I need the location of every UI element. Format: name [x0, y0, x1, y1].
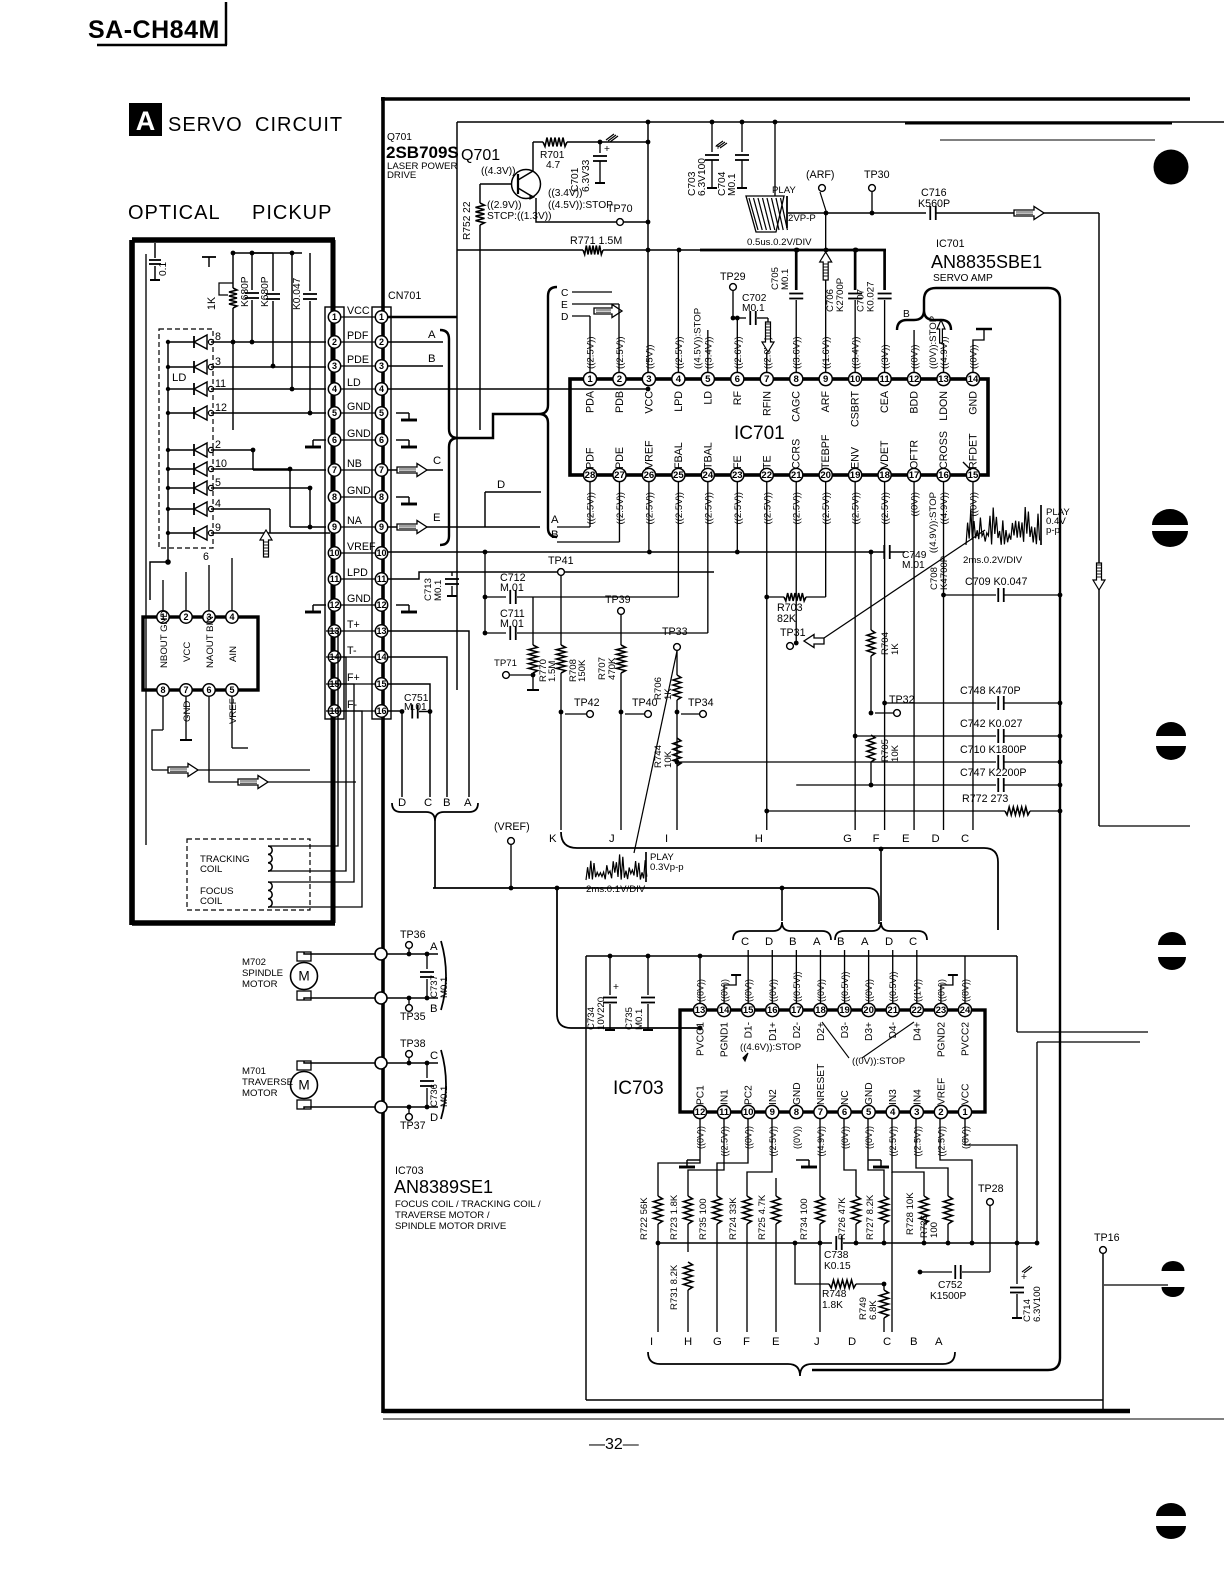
svg-text:D: D	[885, 936, 893, 948]
svg-text:2SB709S: 2SB709S	[386, 143, 459, 162]
svg-text:6: 6	[842, 1107, 847, 1118]
svg-text:10: 10	[215, 458, 227, 470]
svg-text:VREF: VREF	[228, 698, 239, 724]
svg-text:6: 6	[206, 685, 211, 695]
svg-text:((2.5V)): ((2.5V))	[768, 1126, 778, 1157]
svg-text:LPD: LPD	[347, 567, 368, 579]
svg-text:H: H	[684, 1336, 692, 1348]
svg-text:I: I	[665, 833, 668, 845]
svg-text:IN3: IN3	[888, 1089, 899, 1105]
svg-text:C: C	[430, 1050, 438, 1062]
svg-text:GND: GND	[347, 485, 371, 497]
svg-text:C: C	[741, 936, 749, 948]
svg-text:12: 12	[695, 1107, 706, 1118]
svg-text:TE: TE	[761, 455, 773, 469]
svg-text:C752: C752	[938, 1280, 963, 1291]
svg-text:12: 12	[376, 600, 386, 610]
svg-text:FE: FE	[732, 455, 744, 469]
svg-text:NB: NB	[347, 458, 362, 470]
svg-text:21: 21	[791, 470, 802, 481]
svg-text:CIRCUIT: CIRCUIT	[255, 114, 343, 136]
svg-text:A: A	[464, 797, 472, 809]
svg-text:AN8389SE1: AN8389SE1	[394, 1177, 493, 1197]
svg-text:11: 11	[880, 374, 891, 385]
svg-text:7: 7	[183, 685, 188, 695]
svg-text:K4700P: K4700P	[939, 556, 950, 590]
svg-text:SERVO: SERVO	[168, 114, 243, 136]
svg-text:11: 11	[377, 574, 387, 584]
svg-text:((2.5V)): ((2.5V))	[615, 492, 626, 525]
svg-text:((4.5V)):STOP: ((4.5V)):STOP	[692, 308, 703, 369]
svg-text:5: 5	[332, 408, 337, 418]
svg-text:LDON: LDON	[938, 391, 950, 421]
svg-text:RF: RF	[732, 391, 744, 406]
svg-text:A: A	[430, 941, 438, 953]
svg-text:((2.5V)): ((2.5V))	[888, 1126, 898, 1157]
svg-text:R731 8.2K: R731 8.2K	[669, 1264, 680, 1310]
svg-text:27: 27	[614, 470, 625, 481]
svg-text:((2.5V)): ((2.5V))	[762, 492, 773, 525]
svg-text:M0.1: M0.1	[780, 269, 791, 290]
svg-text:24: 24	[703, 470, 714, 481]
svg-text:VREF: VREF	[347, 541, 376, 553]
svg-text:1K: 1K	[890, 643, 901, 655]
svg-text:OFTR: OFTR	[909, 440, 921, 469]
svg-text:7: 7	[379, 465, 384, 475]
svg-text:F+: F+	[347, 672, 360, 684]
svg-text:16: 16	[938, 470, 949, 481]
svg-text:11: 11	[719, 1107, 730, 1118]
svg-text:15: 15	[376, 679, 386, 689]
svg-text:IC703: IC703	[613, 1078, 664, 1099]
svg-text:((3.4V)): ((3.4V))	[851, 336, 862, 369]
svg-text:TP34: TP34	[688, 697, 714, 709]
svg-text:GND: GND	[967, 391, 979, 415]
svg-text:22: 22	[911, 1005, 922, 1016]
svg-text:D: D	[398, 797, 406, 809]
svg-text:B: B	[551, 529, 559, 541]
svg-text:7: 7	[818, 1107, 823, 1118]
svg-text:MOTOR: MOTOR	[242, 1088, 278, 1099]
svg-text:15: 15	[743, 1005, 754, 1016]
svg-text:11: 11	[330, 574, 340, 584]
svg-text:IC703: IC703	[395, 1165, 424, 1177]
svg-text:10V220: 10V220	[596, 997, 607, 1030]
svg-text:3: 3	[215, 356, 221, 368]
svg-text:23: 23	[732, 470, 743, 481]
svg-text:((2.5V)): ((2.5V))	[703, 492, 714, 525]
svg-text:8: 8	[794, 1107, 800, 1118]
svg-text:6: 6	[379, 435, 384, 445]
svg-text:LD: LD	[347, 377, 361, 389]
svg-text:SPINDLE MOTOR DRIVE: SPINDLE MOTOR DRIVE	[395, 1221, 506, 1232]
svg-text:14: 14	[968, 374, 979, 385]
svg-text:VCC: VCC	[643, 391, 655, 414]
svg-text:Q701: Q701	[461, 147, 500, 164]
svg-text:F: F	[873, 833, 880, 845]
svg-text:D: D	[430, 1112, 438, 1124]
svg-text:((4.9V)): ((4.9V))	[816, 1126, 826, 1157]
svg-text:VCC: VCC	[182, 642, 193, 662]
svg-text:GND: GND	[347, 401, 371, 413]
svg-text:((4.6V)):STOP: ((4.6V)):STOP	[740, 1042, 801, 1053]
svg-text:((0V)):STOP: ((0V)):STOP	[852, 1056, 905, 1067]
svg-text:((2.5V)): ((2.5V))	[880, 492, 891, 525]
svg-text:R771 1.5M: R771 1.5M	[570, 235, 622, 247]
svg-text:8: 8	[215, 331, 221, 343]
svg-text:TP29: TP29	[720, 271, 746, 283]
svg-text:IN4: IN4	[912, 1089, 923, 1105]
svg-text:PDB: PDB	[614, 391, 626, 413]
svg-text:3: 3	[332, 361, 337, 371]
svg-text:C: C	[909, 936, 917, 948]
svg-text:E: E	[433, 512, 441, 524]
svg-text:T+: T+	[347, 619, 360, 631]
svg-text:1.8K: 1.8K	[822, 1300, 843, 1311]
svg-text:C709 K0.047: C709 K0.047	[965, 576, 1027, 588]
svg-text:TP38: TP38	[400, 1038, 426, 1050]
svg-text:((0V)): ((0V))	[792, 1126, 802, 1149]
svg-text:6: 6	[203, 551, 209, 563]
svg-text:R725 4.7K: R725 4.7K	[757, 1194, 768, 1240]
svg-text:0.1: 0.1	[158, 262, 169, 276]
svg-text:PC2: PC2	[744, 1085, 755, 1105]
svg-text:2: 2	[183, 612, 188, 622]
svg-text:F-: F-	[347, 699, 358, 711]
svg-text:18: 18	[815, 1005, 826, 1016]
svg-text:R735 100: R735 100	[698, 1198, 709, 1240]
svg-text:TP32: TP32	[889, 694, 915, 706]
svg-text:2: 2	[215, 439, 221, 451]
svg-text:K0.15: K0.15	[824, 1261, 851, 1272]
svg-text:M.01: M.01	[500, 618, 524, 630]
svg-text:D1+: D1+	[768, 1022, 779, 1041]
svg-text:VCC: VCC	[960, 1083, 971, 1105]
svg-text:LD: LD	[702, 391, 714, 405]
svg-text:25: 25	[673, 470, 684, 481]
svg-text:SPINDLE: SPINDLE	[242, 968, 283, 979]
svg-text:1: 1	[962, 1107, 968, 1118]
svg-text:((2.5V)): ((2.5V))	[936, 1126, 946, 1157]
svg-text:((2.5V)): ((2.5V))	[644, 492, 655, 525]
svg-text:2: 2	[617, 374, 622, 385]
svg-text:((0V)): ((0V))	[840, 1126, 850, 1149]
svg-text:4: 4	[332, 384, 337, 394]
svg-text:ARF: ARF	[820, 391, 832, 413]
svg-text:((3.6V)): ((3.6V))	[792, 336, 803, 369]
svg-text:CAGC: CAGC	[791, 391, 803, 422]
svg-text:13: 13	[695, 1005, 706, 1016]
svg-text:M: M	[298, 1078, 309, 1093]
svg-text:E: E	[561, 300, 568, 311]
svg-text:C: C	[561, 288, 568, 299]
svg-text:PDE: PDE	[347, 354, 369, 366]
svg-text:D: D	[765, 936, 773, 948]
svg-text:((0V)): ((0V))	[910, 492, 921, 517]
svg-text:1K: 1K	[206, 296, 218, 310]
svg-text:4: 4	[229, 612, 234, 622]
svg-text:C: C	[433, 455, 441, 467]
svg-text:K2700P: K2700P	[835, 278, 846, 312]
svg-text:VCC: VCC	[347, 305, 370, 317]
svg-text:TP30: TP30	[864, 169, 890, 181]
svg-text:AN8835SBE1: AN8835SBE1	[931, 252, 1042, 272]
svg-text:5: 5	[215, 477, 221, 489]
svg-text:K560P: K560P	[918, 198, 950, 210]
svg-text:13: 13	[938, 374, 949, 385]
svg-text:IC701: IC701	[734, 423, 785, 444]
svg-text:TP36: TP36	[400, 929, 426, 941]
svg-text:16: 16	[767, 1005, 778, 1016]
svg-text:C742 K0.027: C742 K0.027	[960, 718, 1022, 730]
svg-text:K680P: K680P	[240, 276, 251, 307]
svg-text:((4.3V)): ((4.3V))	[481, 166, 516, 177]
svg-text:TP28: TP28	[978, 1183, 1004, 1195]
svg-text:10: 10	[850, 374, 861, 385]
svg-text:24: 24	[960, 1005, 971, 1016]
svg-text:R726 47K: R726 47K	[837, 1197, 848, 1240]
svg-text:CROSS: CROSS	[938, 431, 950, 469]
svg-text:MOTOR: MOTOR	[242, 979, 278, 990]
svg-text:FBAL: FBAL	[673, 442, 685, 469]
svg-text:R728 10K: R728 10K	[905, 1192, 916, 1235]
svg-text:K1500P: K1500P	[930, 1291, 966, 1302]
svg-text:J: J	[814, 1336, 820, 1348]
svg-text:K0.027: K0.027	[866, 282, 877, 312]
svg-text:Q701: Q701	[387, 132, 412, 143]
svg-text:SA-CH84M: SA-CH84M	[88, 16, 220, 44]
svg-text:23: 23	[936, 1005, 947, 1016]
svg-text:OPTICAL: OPTICAL	[128, 202, 221, 224]
svg-text:PLAY: PLAY	[772, 185, 796, 196]
svg-text:((5V)): ((5V))	[644, 344, 655, 369]
svg-text:D2+: D2+	[816, 1022, 827, 1041]
svg-text:((0V)): ((0V))	[910, 344, 921, 369]
svg-text:TP42: TP42	[574, 697, 600, 709]
svg-text:K0.047: K0.047	[292, 277, 303, 310]
svg-text:R772 273: R772 273	[962, 793, 1008, 805]
svg-text:TP33: TP33	[662, 626, 688, 638]
svg-text:GND: GND	[347, 593, 371, 605]
svg-text:14: 14	[376, 652, 386, 662]
svg-text:M0.1: M0.1	[742, 303, 765, 314]
svg-text:D3-: D3-	[840, 1022, 851, 1038]
svg-text:5: 5	[705, 374, 711, 385]
svg-text:R727 8.2K: R727 8.2K	[865, 1194, 876, 1240]
svg-text:VDET: VDET	[879, 440, 891, 469]
svg-text:1: 1	[332, 312, 337, 322]
svg-text:STCP:((1.3V)): STCP:((1.3V))	[487, 211, 552, 222]
svg-text:CCRS: CCRS	[791, 439, 803, 469]
svg-text:A: A	[861, 936, 869, 948]
svg-text:PDE: PDE	[614, 447, 626, 469]
svg-text:18: 18	[879, 470, 890, 481]
svg-text:R723 1.8K: R723 1.8K	[669, 1194, 680, 1240]
svg-text:H: H	[755, 833, 763, 845]
svg-text:TP41: TP41	[548, 555, 574, 567]
svg-text:TP31: TP31	[780, 627, 806, 639]
svg-text:C: C	[424, 797, 432, 809]
svg-text:GND: GND	[182, 701, 193, 722]
svg-text:B: B	[903, 309, 910, 320]
svg-text:C710 K1800P: C710 K1800P	[960, 744, 1027, 756]
svg-text:12: 12	[329, 600, 339, 610]
svg-text:COIL: COIL	[200, 896, 223, 907]
svg-text:R722 56K: R722 56K	[639, 1197, 650, 1240]
svg-text:R752 22: R752 22	[462, 201, 473, 240]
svg-text:9: 9	[770, 1107, 775, 1118]
svg-text:19: 19	[850, 470, 861, 481]
svg-text:FOCUS COIL / TRACKING COIL /: FOCUS COIL / TRACKING COIL /	[395, 1199, 541, 1210]
svg-text:0.5us.0.2V/DIV: 0.5us.0.2V/DIV	[747, 237, 812, 248]
svg-text:((2.5V)): ((2.5V))	[586, 492, 597, 525]
svg-text:((2.5V)): ((2.5V))	[733, 492, 744, 525]
svg-text:10: 10	[376, 548, 386, 558]
svg-text:A: A	[136, 106, 156, 136]
svg-text:10K: 10K	[663, 750, 674, 768]
svg-text:+: +	[604, 144, 610, 155]
svg-text:((1.6V)): ((1.6V))	[821, 336, 832, 369]
svg-text:14: 14	[719, 1005, 730, 1016]
svg-text:26: 26	[644, 470, 655, 481]
svg-text:((2.5V)): ((2.5V))	[851, 492, 862, 525]
svg-text:RFIN: RFIN	[761, 391, 773, 416]
svg-text:((2.5V)): ((2.5V))	[821, 492, 832, 525]
svg-text:PVCC2: PVCC2	[960, 1022, 971, 1056]
svg-text:8: 8	[332, 492, 337, 502]
svg-text:150K: 150K	[577, 659, 588, 682]
svg-text:J: J	[609, 833, 615, 845]
svg-text:4: 4	[379, 384, 384, 394]
svg-text:2ms.0.2V/DIV: 2ms.0.2V/DIV	[963, 555, 1023, 566]
svg-text:7: 7	[332, 465, 337, 475]
svg-text:((0V)):STOP: ((0V)):STOP	[928, 316, 939, 369]
svg-text:+: +	[613, 982, 619, 993]
svg-text:M702: M702	[242, 957, 266, 968]
svg-text:9: 9	[379, 522, 384, 532]
svg-text:5: 5	[866, 1107, 872, 1118]
svg-text:+: +	[1021, 1272, 1027, 1283]
svg-text:11: 11	[215, 378, 226, 390]
svg-text:6.8K: 6.8K	[868, 1300, 879, 1320]
svg-text:E: E	[902, 833, 910, 845]
svg-text:9: 9	[332, 522, 337, 532]
svg-text:1: 1	[587, 374, 593, 385]
svg-text:M.01: M.01	[404, 702, 427, 713]
svg-text:VREF: VREF	[936, 1078, 947, 1105]
svg-text:IN1: IN1	[720, 1089, 731, 1105]
svg-text:ENV: ENV	[850, 446, 862, 469]
svg-text:TP16: TP16	[1094, 1232, 1120, 1244]
svg-text:8: 8	[160, 685, 165, 695]
svg-text:((4.9V)):STOP: ((4.9V)):STOP	[928, 492, 939, 553]
svg-text:1: 1	[379, 312, 384, 322]
svg-text:B: B	[910, 1336, 918, 1348]
svg-text:VREF: VREF	[643, 440, 655, 469]
svg-text:D2-: D2-	[792, 1022, 803, 1038]
svg-text:C: C	[961, 833, 969, 845]
svg-text:470K: 470K	[607, 657, 618, 680]
svg-text:9: 9	[215, 522, 221, 534]
svg-text:A: A	[428, 329, 436, 341]
svg-text:PGND2: PGND2	[936, 1022, 947, 1057]
svg-text:D1-: D1-	[744, 1022, 755, 1038]
svg-text:B: B	[837, 936, 845, 948]
svg-text:C738: C738	[824, 1250, 849, 1261]
svg-text:28: 28	[585, 470, 596, 481]
svg-text:A: A	[935, 1336, 943, 1348]
svg-text:10: 10	[743, 1107, 754, 1118]
svg-text:R724 33K: R724 33K	[728, 1197, 739, 1240]
svg-text:D: D	[848, 1336, 856, 1348]
svg-text:GND: GND	[347, 428, 371, 440]
svg-text:6.3V100: 6.3V100	[1032, 1286, 1043, 1322]
svg-text:4: 4	[676, 374, 682, 385]
svg-text:TRAVERSE: TRAVERSE	[242, 1077, 293, 1088]
svg-text:2: 2	[379, 337, 384, 347]
svg-text:PVCC1: PVCC1	[696, 1022, 707, 1056]
svg-text:((2.5V)): ((2.5V))	[674, 336, 685, 369]
svg-text:NBOUT GND: NBOUT GND	[159, 611, 170, 668]
svg-text:6.3V100: 6.3V100	[697, 158, 708, 196]
svg-text:20: 20	[863, 1005, 874, 1016]
svg-text:M: M	[298, 969, 309, 984]
svg-text:NA: NA	[347, 515, 363, 527]
svg-text:((4.9V)): ((4.9V))	[939, 492, 950, 525]
svg-text:((2.5V)): ((2.5V))	[615, 336, 626, 369]
svg-text:SERVO AMP: SERVO AMP	[933, 273, 993, 284]
svg-text:B: B	[443, 797, 451, 809]
svg-text:TP39: TP39	[605, 594, 631, 606]
svg-text:A: A	[551, 514, 559, 526]
svg-text:5: 5	[229, 685, 234, 695]
svg-text:PGND1: PGND1	[720, 1022, 731, 1057]
svg-text:1.5M: 1.5M	[547, 661, 558, 682]
svg-text:D3+: D3+	[864, 1022, 875, 1041]
svg-text:PDF: PDF	[347, 330, 369, 342]
svg-text:D: D	[561, 312, 568, 323]
svg-text:T-: T-	[347, 645, 357, 657]
svg-text:17: 17	[909, 470, 920, 481]
svg-text:B: B	[428, 353, 436, 365]
svg-text:NC: NC	[840, 1090, 851, 1105]
svg-text:D: D	[497, 479, 505, 491]
svg-text:C747 K2200P: C747 K2200P	[960, 767, 1027, 779]
svg-text:GND: GND	[864, 1082, 875, 1105]
svg-text:6: 6	[332, 435, 337, 445]
svg-text:((0V)): ((0V))	[968, 344, 979, 369]
svg-text:TRAVERSE MOTOR /: TRAVERSE MOTOR /	[395, 1210, 490, 1221]
svg-text:DRIVE: DRIVE	[387, 170, 416, 181]
svg-text:p-p: p-p	[1046, 525, 1060, 536]
svg-text:4: 4	[890, 1107, 896, 1118]
svg-text:((2.5V)): ((2.5V))	[912, 1126, 922, 1157]
svg-text:21: 21	[887, 1005, 898, 1016]
svg-text:K: K	[549, 833, 557, 845]
svg-text:16: 16	[376, 706, 386, 716]
svg-text:5: 5	[379, 408, 384, 418]
svg-text:PDF: PDF	[585, 447, 597, 469]
svg-text:B: B	[789, 936, 797, 948]
svg-text:TEBPF: TEBPF	[820, 434, 832, 469]
svg-text:M.01: M.01	[500, 582, 524, 594]
svg-text:10K: 10K	[890, 744, 901, 762]
svg-text:4: 4	[215, 498, 221, 510]
svg-text:((2.5V)): ((2.5V))	[586, 336, 597, 369]
svg-text:F: F	[743, 1336, 750, 1348]
svg-text:A: A	[813, 936, 821, 948]
svg-text:((3V)): ((3V))	[880, 344, 891, 369]
